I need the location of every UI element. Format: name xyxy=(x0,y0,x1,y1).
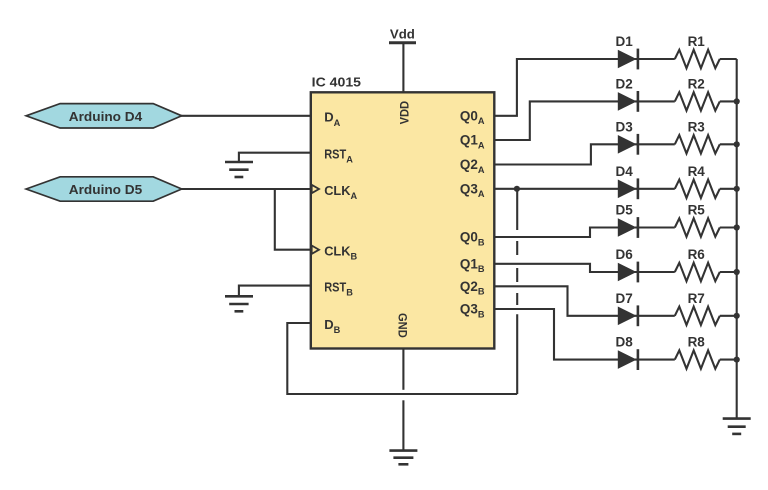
resistor R5 xyxy=(675,218,720,236)
wire Q0B to diode D5 xyxy=(494,228,675,238)
diode D2 xyxy=(618,91,638,112)
diode D8 xyxy=(618,349,638,370)
junction dot rail R6 xyxy=(734,269,740,275)
resistor R7 xyxy=(675,307,720,325)
svg-text:D1: D1 xyxy=(616,34,634,49)
wire R1 to rail xyxy=(720,58,737,60)
clock input triangle CLKB xyxy=(312,246,319,254)
diode D1 xyxy=(618,49,638,70)
resistor R4 xyxy=(675,180,720,198)
wire GND pin down (break at crossing) xyxy=(402,349,404,390)
svg-text:D3: D3 xyxy=(616,119,634,134)
svg-text:D7: D7 xyxy=(616,291,633,306)
svg-text:Q3: Q3 xyxy=(460,181,478,196)
svg-text:Q3: Q3 xyxy=(460,302,478,317)
wire R2 to rail xyxy=(720,100,737,102)
diode D4 xyxy=(618,178,638,199)
junction dot rail R3 xyxy=(734,141,740,147)
svg-text:Q0: Q0 xyxy=(460,230,478,245)
svg-text:D2: D2 xyxy=(616,76,633,91)
junction dot rail R2 xyxy=(734,98,740,104)
svg-text:R1: R1 xyxy=(688,34,706,49)
svg-text:R4: R4 xyxy=(688,164,706,179)
wire cascade riser (solid lower part) xyxy=(516,314,518,394)
wire R6 to rail xyxy=(720,271,737,273)
wire cascade riser dashed segments up to Q3A junction xyxy=(516,293,518,305)
wire Arduino D4 to DA pin xyxy=(180,115,311,117)
svg-text:Vdd: Vdd xyxy=(390,26,415,41)
svg-text:A: A xyxy=(478,116,485,126)
wire RSTB to ground xyxy=(239,286,311,297)
wire R3 to rail xyxy=(720,143,737,145)
diode D7 xyxy=(618,305,638,326)
diode D6 xyxy=(618,262,638,283)
svg-text:GND: GND xyxy=(396,313,410,338)
svg-text:R2: R2 xyxy=(688,76,705,91)
wire R5 to rail xyxy=(720,226,737,228)
junction dot rail R7 xyxy=(734,313,740,319)
svg-text:A: A xyxy=(478,189,485,199)
resistor R3 xyxy=(675,135,720,153)
wire Vdd bar to VDD pin xyxy=(402,43,404,93)
svg-text:VDD: VDD xyxy=(397,101,411,125)
svg-text:Arduino D4: Arduino D4 xyxy=(69,109,143,124)
svg-text:D4: D4 xyxy=(616,164,634,179)
svg-text:B: B xyxy=(478,264,485,274)
resistor R6 xyxy=(675,263,720,281)
svg-text:Q1: Q1 xyxy=(460,256,478,271)
svg-text:Arduino D5: Arduino D5 xyxy=(69,182,143,197)
node tag Arduino D5 xyxy=(26,177,182,201)
junction dot rail R5 xyxy=(734,224,740,230)
svg-text:D5: D5 xyxy=(616,203,634,218)
wire ground rail xyxy=(736,59,738,419)
svg-text:IC 4015: IC 4015 xyxy=(312,75,361,90)
junction dot Q3A / DB cascade xyxy=(514,186,520,192)
IC U1 body (4015 shift register) xyxy=(311,92,495,348)
resistor R8 xyxy=(675,350,720,368)
wire R8 to rail xyxy=(720,359,737,361)
junction dot rail R8 xyxy=(734,357,740,363)
wire DB pin down and across xyxy=(287,323,517,394)
svg-text:Q2: Q2 xyxy=(460,157,478,172)
wire Q1B to diode D6 xyxy=(494,264,675,272)
svg-text:D6: D6 xyxy=(616,247,634,262)
ground symbol below IC xyxy=(389,451,417,465)
wire R7 to rail xyxy=(720,315,737,317)
wire Q2A to diode D3 xyxy=(494,144,675,164)
svg-text:R8: R8 xyxy=(688,335,706,350)
node tag Arduino D4 xyxy=(26,104,182,128)
ground symbol at rail xyxy=(723,419,751,434)
wire RSTA to ground xyxy=(239,153,311,162)
svg-text:Q1: Q1 xyxy=(460,133,478,148)
wire Q3B to diode D8 xyxy=(494,309,675,360)
wire CLKA branch to CLKB pin xyxy=(275,189,311,250)
wire Q1A to diode D2 xyxy=(494,101,675,140)
wire Arduino D5 to CLKA pin xyxy=(180,188,311,190)
resistor R2 xyxy=(675,92,720,110)
svg-text:R7: R7 xyxy=(688,291,705,306)
diode D3 xyxy=(618,134,638,155)
wire R4 to rail xyxy=(720,188,737,190)
svg-text:A: A xyxy=(478,165,485,175)
junction dot rail R4 xyxy=(734,186,740,192)
svg-text:B: B xyxy=(478,237,485,247)
svg-text:D8: D8 xyxy=(616,335,634,350)
svg-text:B: B xyxy=(478,287,485,297)
clock input triangle CLKA xyxy=(312,185,319,193)
svg-text:Q2: Q2 xyxy=(460,279,478,294)
ground symbol at RSTB xyxy=(225,296,253,311)
ground symbol at RSTA xyxy=(225,162,253,177)
svg-text:R3: R3 xyxy=(688,119,706,134)
resistor R1 xyxy=(675,50,720,68)
wire Q0A to diode D1 xyxy=(494,59,675,116)
svg-text:Q0: Q0 xyxy=(460,108,478,123)
svg-text:A: A xyxy=(478,140,485,150)
svg-text:R5: R5 xyxy=(688,203,706,218)
Vdd power symbol bar xyxy=(389,41,416,44)
diode D5 xyxy=(618,217,638,238)
wire Q2B to diode D7 xyxy=(494,286,675,316)
svg-text:B: B xyxy=(478,309,485,319)
wire Q3A to diode D4 xyxy=(494,188,675,190)
svg-text:R6: R6 xyxy=(688,247,706,262)
